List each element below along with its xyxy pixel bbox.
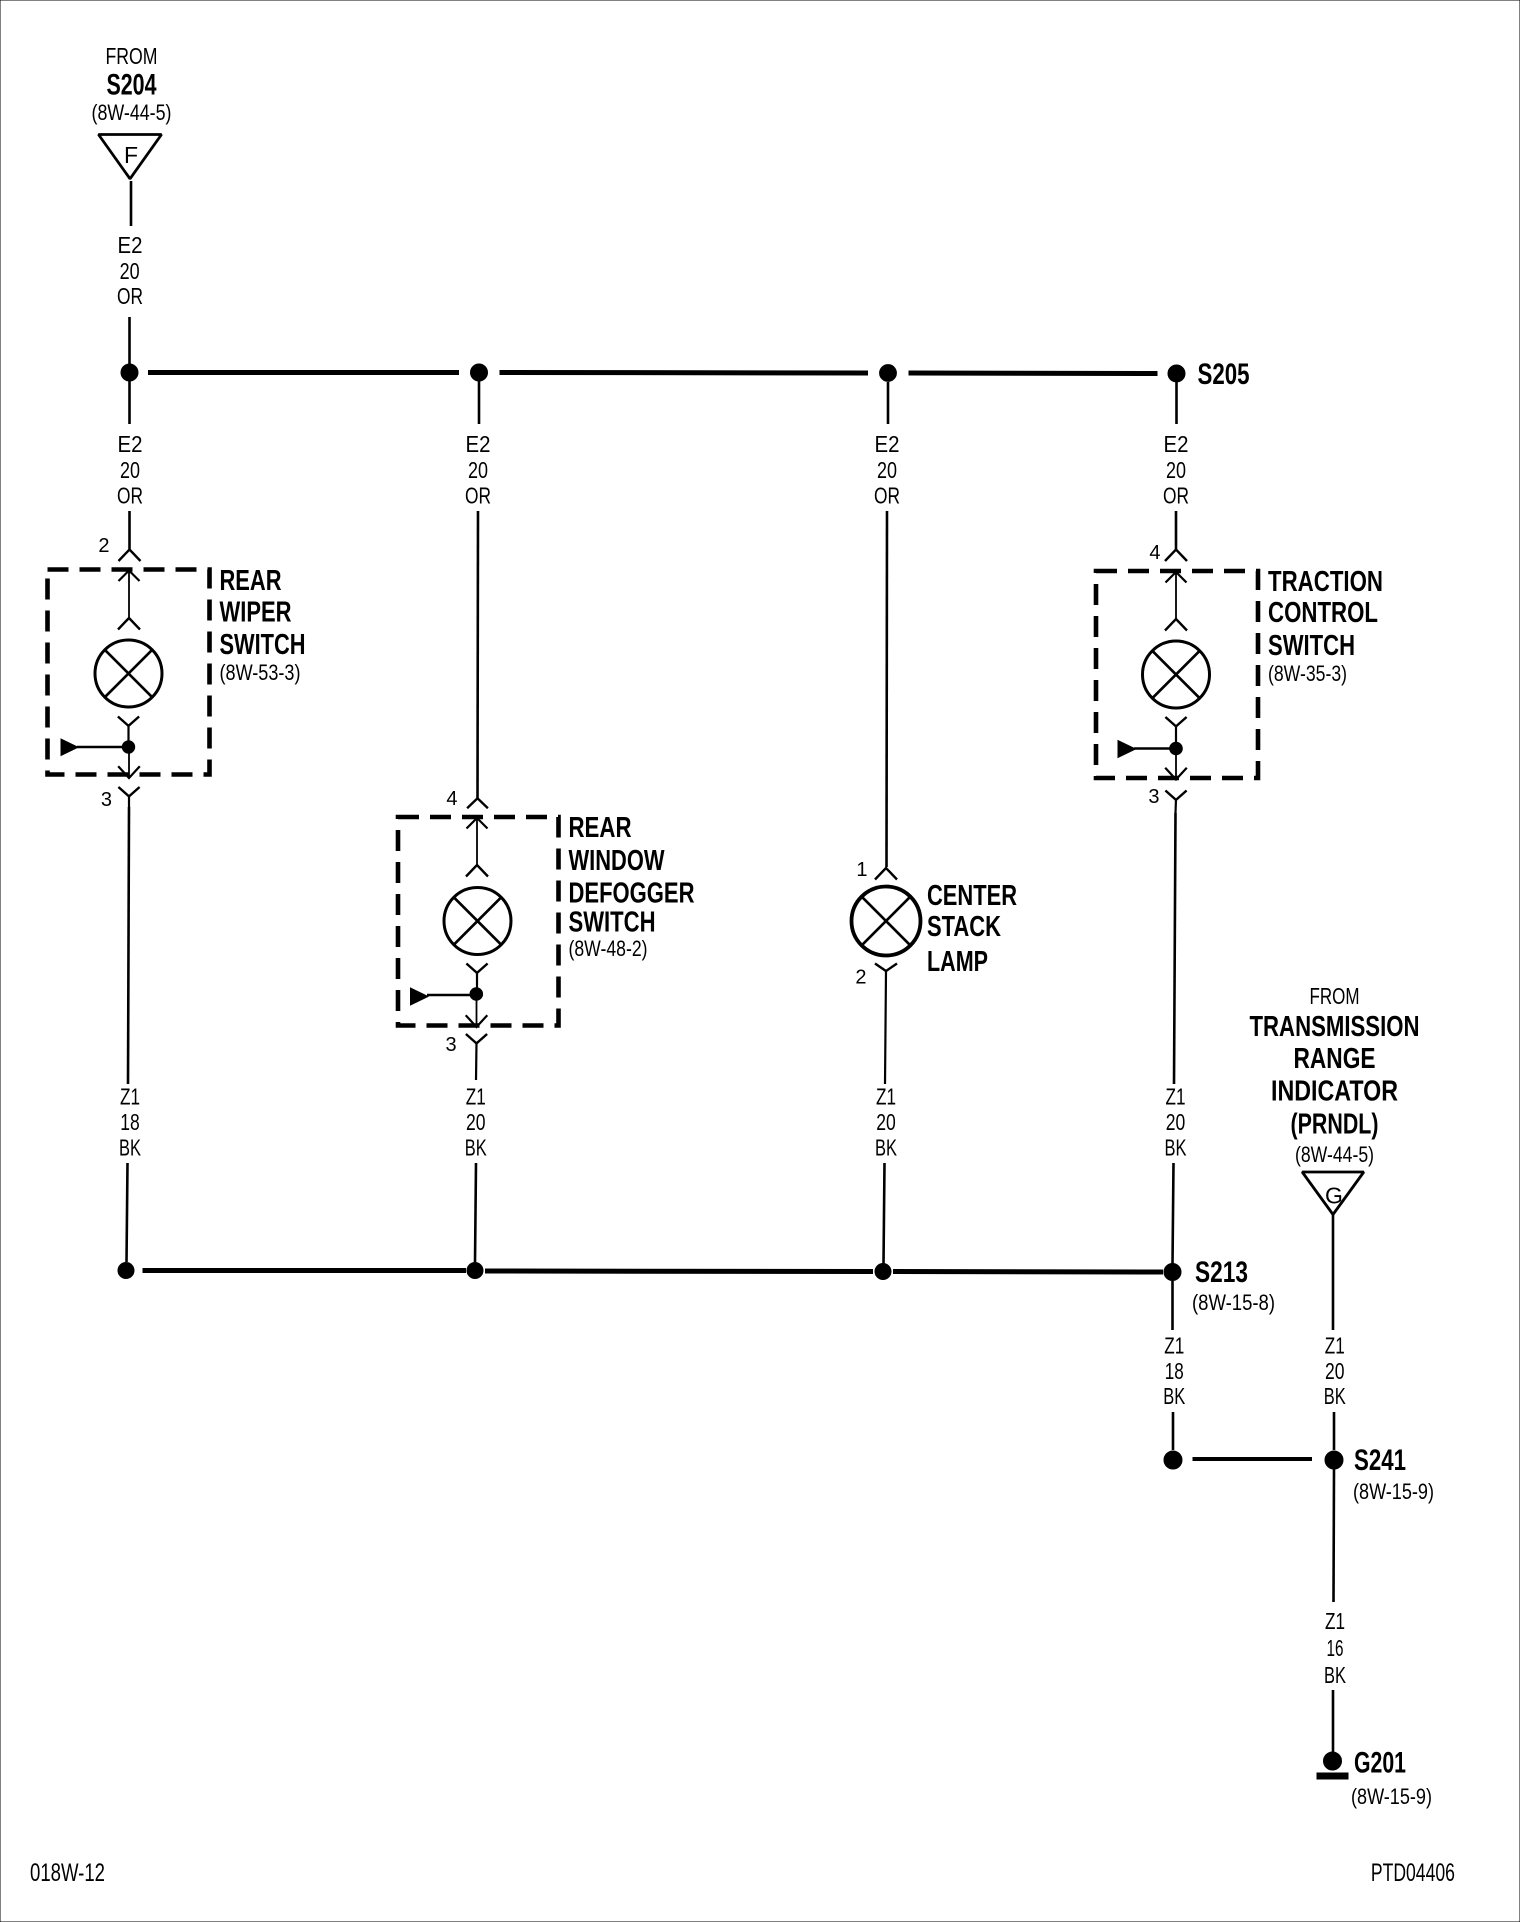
svg-text:1: 1	[856, 859, 867, 881]
svg-text:OR: OR	[874, 483, 900, 509]
svg-text:(8W-15-8): (8W-15-8)	[1192, 1290, 1275, 1315]
svg-text:Z1: Z1	[120, 1084, 140, 1110]
svg-text:20: 20	[466, 1109, 486, 1135]
svg-text:(8W-44-5): (8W-44-5)	[1295, 1142, 1374, 1167]
svg-text:PTD04406: PTD04406	[1371, 1859, 1455, 1887]
svg-text:F: F	[124, 142, 138, 168]
svg-text:RANGE: RANGE	[1294, 1043, 1376, 1075]
svg-text:OR: OR	[1163, 483, 1189, 509]
svg-text:18: 18	[120, 1109, 140, 1135]
svg-text:OR: OR	[465, 483, 491, 509]
svg-text:20: 20	[1325, 1358, 1345, 1384]
svg-text:CENTER: CENTER	[927, 880, 1017, 912]
svg-text:SWITCH: SWITCH	[569, 907, 656, 939]
svg-text:(PRNDL): (PRNDL)	[1291, 1109, 1379, 1141]
svg-text:LAMP: LAMP	[927, 946, 988, 978]
svg-text:Z1: Z1	[1166, 1084, 1186, 1110]
svg-text:OR: OR	[117, 483, 143, 509]
svg-text:FROM: FROM	[1310, 983, 1360, 1009]
svg-text:E2: E2	[118, 431, 143, 457]
svg-text:TRANSMISSION: TRANSMISSION	[1250, 1011, 1420, 1043]
svg-text:S205: S205	[1198, 358, 1250, 391]
svg-text:DEFOGGER: DEFOGGER	[569, 878, 695, 910]
svg-text:20: 20	[877, 457, 897, 483]
svg-text:E2: E2	[875, 431, 900, 457]
svg-text:3: 3	[101, 789, 112, 811]
svg-text:Z1: Z1	[1164, 1333, 1184, 1359]
svg-text:Z1: Z1	[466, 1084, 486, 1110]
svg-text:Z1: Z1	[876, 1084, 896, 1110]
svg-text:BK: BK	[875, 1134, 897, 1160]
svg-text:STACK: STACK	[927, 911, 1001, 943]
svg-text:G: G	[1325, 1183, 1343, 1209]
svg-text:BK: BK	[1324, 1383, 1346, 1409]
svg-text:BK: BK	[1165, 1134, 1187, 1160]
svg-text:S213: S213	[1195, 1256, 1248, 1289]
svg-text:(8W-48-2): (8W-48-2)	[569, 936, 648, 961]
svg-text:INDICATOR: INDICATOR	[1271, 1076, 1398, 1108]
svg-text:SWITCH: SWITCH	[1268, 630, 1355, 662]
svg-text:16: 16	[1327, 1635, 1344, 1661]
svg-text:20: 20	[120, 258, 140, 284]
svg-text:Z1: Z1	[1325, 1608, 1345, 1634]
svg-text:SWITCH: SWITCH	[220, 629, 306, 661]
svg-text:OR: OR	[117, 283, 143, 309]
svg-text:WINDOW: WINDOW	[569, 845, 665, 877]
svg-text:(8W-35-3): (8W-35-3)	[1268, 661, 1347, 686]
svg-text:4: 4	[1149, 542, 1160, 564]
svg-text:20: 20	[120, 457, 140, 483]
svg-text:S204: S204	[107, 69, 157, 102]
svg-text:E2: E2	[118, 232, 143, 258]
svg-text:018W-12: 018W-12	[30, 1859, 105, 1887]
svg-text:BK: BK	[119, 1134, 141, 1160]
svg-text:20: 20	[1166, 1109, 1186, 1135]
svg-text:BK: BK	[1163, 1383, 1185, 1409]
svg-text:CONTROL: CONTROL	[1268, 597, 1378, 629]
svg-text:(8W-53-3): (8W-53-3)	[220, 660, 301, 685]
svg-text:(8W-44-5): (8W-44-5)	[92, 100, 172, 125]
svg-text:E2: E2	[466, 431, 491, 457]
svg-text:S241: S241	[1354, 1444, 1406, 1477]
svg-text:20: 20	[876, 1109, 896, 1135]
svg-text:3: 3	[1148, 786, 1159, 808]
svg-text:18: 18	[1165, 1358, 1184, 1384]
svg-text:3: 3	[445, 1034, 456, 1056]
svg-text:(8W-15-9): (8W-15-9)	[1353, 1479, 1434, 1504]
svg-text:20: 20	[468, 457, 488, 483]
svg-text:2: 2	[855, 967, 866, 989]
svg-text:BK: BK	[465, 1134, 487, 1160]
svg-text:4: 4	[446, 788, 457, 810]
svg-text:TRACTION: TRACTION	[1268, 566, 1383, 598]
svg-text:BK: BK	[1324, 1662, 1346, 1688]
svg-text:2: 2	[98, 535, 109, 557]
svg-text:G201: G201	[1354, 1747, 1406, 1780]
svg-text:FROM: FROM	[106, 43, 158, 69]
svg-text:WIPER: WIPER	[220, 597, 292, 629]
svg-text:(8W-15-9): (8W-15-9)	[1351, 1784, 1432, 1809]
svg-text:Z1: Z1	[1325, 1333, 1345, 1359]
svg-text:E2: E2	[1164, 431, 1189, 457]
svg-text:REAR: REAR	[220, 565, 282, 597]
svg-text:20: 20	[1166, 457, 1186, 483]
svg-text:REAR: REAR	[569, 812, 632, 844]
